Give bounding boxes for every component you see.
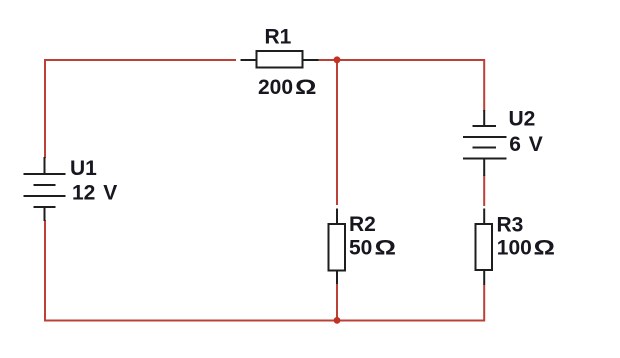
value 50Ω [349, 237, 396, 260]
svg-text:Ω: Ω [295, 76, 317, 99]
wire bottom rail node B to R3 pin 2 [337, 285, 484, 321]
resistor R3 [476, 209, 493, 286]
resistor R1 [241, 51, 319, 68]
wire top-right (R1 pin 2 to node A and U2 +) [318, 60, 484, 111]
svg-text:50: 50 [349, 237, 372, 260]
svg-text:Ω: Ω [534, 237, 556, 260]
svg-text:R1: R1 [265, 26, 292, 49]
junction node B [334, 317, 341, 324]
svg-text:U1: U1 [70, 157, 97, 180]
resistor R2 [329, 209, 346, 285]
wire node A to R2 pin 1 [336, 60, 338, 205]
svg-text:Ω: Ω [375, 237, 397, 260]
battery U2 [463, 110, 507, 176]
svg-text:R2: R2 [349, 213, 376, 236]
junction node A [334, 56, 341, 63]
value 100Ω [497, 237, 555, 260]
svg-text:U2: U2 [509, 107, 536, 130]
svg-text:100: 100 [497, 237, 532, 260]
wire U2 - to R3 pin 1 [483, 175, 485, 206]
svg-text:200: 200 [258, 76, 293, 99]
wire U1 - to bottom rail [45, 220, 337, 321]
svg-text:12 V: 12 V [72, 182, 117, 205]
battery U1 [24, 157, 66, 221]
svg-text:R3: R3 [497, 213, 524, 236]
value 200Ω [258, 76, 317, 99]
wire R2 pin 2 to node B [336, 284, 338, 321]
svg-text:6 V: 6 V [509, 133, 543, 156]
wire top-left (U1 + to R1 pin 1) [45, 60, 236, 158]
